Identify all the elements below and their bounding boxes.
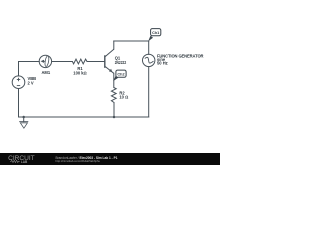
ammeter AM1 <box>39 55 51 67</box>
wire VBB top to ammeter <box>19 62 40 76</box>
logo CircuitLab <box>8 155 35 164</box>
logo resistor glyph <box>10 160 20 162</box>
label function generator <box>157 53 204 65</box>
wire Q1 emitter down to R2 <box>113 73 115 87</box>
wire ammeter to R1 <box>52 61 73 63</box>
wire Q1 collector to top rail <box>113 41 115 49</box>
wire R1 to Q1 base <box>87 61 104 63</box>
function generator V1 <box>143 54 155 66</box>
resistor R1 <box>72 59 87 64</box>
footer bar <box>0 153 220 165</box>
label Q1 value <box>115 56 127 65</box>
label VBB value <box>28 76 37 85</box>
svg-text:2 V: 2 V <box>28 80 34 85</box>
svg-text:2N2222: 2N2222 <box>115 60 127 65</box>
resistor R2 <box>111 88 116 103</box>
junction ground node <box>22 116 25 119</box>
flag Ch2 <box>113 76 118 82</box>
wire top rail <box>114 40 149 42</box>
wire R2 to bottom rail <box>113 103 115 118</box>
wire bottom rail <box>19 116 149 118</box>
transistor Q1 <box>105 49 114 73</box>
svg-text:LAB: LAB <box>21 160 28 164</box>
wire function generator to bottom rail <box>148 67 150 117</box>
svg-text:10 Ω: 10 Ω <box>119 95 128 100</box>
ground <box>19 122 28 129</box>
svg-text:100 kΩ: 100 kΩ <box>73 70 86 75</box>
svg-text:50 Hz: 50 Hz <box>157 61 168 66</box>
svg-text:AM1: AM1 <box>41 70 50 75</box>
svg-text:Ch2: Ch2 <box>117 72 124 76</box>
flag Ch1 <box>148 36 153 42</box>
wire Ch1 node down to function generator <box>148 41 150 54</box>
wire ground stub <box>23 117 25 122</box>
wire VBB bottom to bottom rail <box>18 89 20 118</box>
junction R2 bottom node <box>113 116 116 119</box>
label R2 value <box>119 90 128 99</box>
svg-text:http://circuitlab.com/c6b4ab5a: http://circuitlab.com/c6b4ab5ab3phu <box>56 159 101 163</box>
voltage source VBB <box>12 76 25 89</box>
svg-text:Ch1: Ch1 <box>152 31 159 35</box>
label R1 value <box>73 66 86 76</box>
